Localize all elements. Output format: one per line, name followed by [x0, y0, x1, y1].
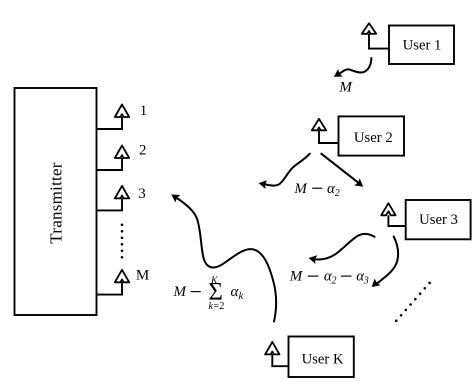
wire arrow user2 to user3 — [321, 154, 366, 191]
svg-text:k=2: k=2 — [209, 301, 225, 312]
svg-text:2: 2 — [139, 143, 147, 159]
wire curve user1 (M) — [331, 58, 371, 81]
svg-text:M: M — [136, 268, 149, 284]
svg-text:1: 1 — [140, 103, 148, 119]
svg-text:K: K — [210, 275, 219, 286]
wire curve user2 left — [258, 154, 310, 189]
svg-text:k: k — [239, 291, 244, 302]
wire curve user3 left — [308, 234, 375, 264]
svg-text:3: 3 — [138, 186, 146, 202]
svg-text:Transmitter: Transmitter — [47, 162, 66, 244]
antenna M (transmitter) — [97, 270, 130, 295]
svg-text:M: M — [338, 79, 353, 95]
wire curve user3 down — [369, 237, 398, 291]
user 1 box — [389, 26, 454, 65]
diagonal ellipsis dots — [395, 282, 431, 322]
antenna 2 (transmitter) — [97, 146, 130, 171]
svg-text:M: M — [289, 269, 304, 285]
label M - alpha2 — [293, 181, 339, 199]
svg-text:M: M — [293, 181, 308, 197]
wire snake userK to transmitter — [169, 191, 276, 322]
transmitter box — [15, 88, 97, 315]
svg-text:User 3: User 3 — [419, 212, 458, 228]
antenna user 2 — [312, 119, 339, 143]
svg-text:2: 2 — [335, 188, 340, 199]
user 2 box — [339, 116, 405, 155]
svg-text:User 2: User 2 — [354, 130, 393, 146]
user 3 box — [406, 200, 471, 239]
antenna 3 (transmitter) — [97, 186, 130, 211]
antenna user K — [265, 342, 288, 366]
label M - alpha2 - alpha3 — [289, 269, 369, 287]
svg-text:User K: User K — [302, 352, 344, 368]
svg-text:User 1: User 1 — [403, 38, 442, 54]
user K box — [289, 337, 354, 378]
svg-text:M: M — [173, 284, 188, 300]
antenna user 3 — [381, 203, 406, 226]
vertical ellipsis dots — [121, 224, 124, 259]
antenna 1 (transmitter) — [97, 105, 130, 130]
antenna user 1 — [362, 23, 389, 48]
svg-text:3: 3 — [363, 276, 369, 287]
label M - sum alpha_k — [173, 275, 244, 312]
svg-text:2: 2 — [332, 276, 337, 287]
